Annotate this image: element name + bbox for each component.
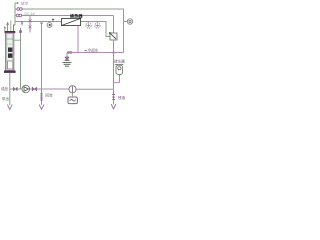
tick on line C bbox=[21, 22, 23, 26]
tick T on line C at x41.5 bbox=[40, 22, 43, 26]
check valve CV1 bbox=[32, 87, 37, 91]
wire to junction bbox=[37, 88, 41, 90]
feed arrow small green bbox=[4, 28, 6, 31]
pump P1 bbox=[22, 85, 30, 93]
wire line B bbox=[15, 15, 114, 17]
wire purple drop from E1 bbox=[77, 26, 79, 53]
wire line B riser bbox=[113, 16, 115, 34]
column V1 top flange bbox=[5, 31, 16, 33]
motor box bbox=[72, 93, 74, 96]
wire drop to drain bbox=[66, 53, 68, 58]
svg-text:换热器: 换热器 bbox=[70, 12, 83, 19]
wire long vertical x41.5 bbox=[41, 22, 43, 105]
instrument circle C3 bbox=[97, 22, 99, 23]
valve tick on side line bbox=[19, 30, 22, 33]
svg-text:冷却水: 冷却水 bbox=[88, 47, 99, 52]
column bottom insert bbox=[8, 61, 13, 69]
column bottom flange bbox=[4, 71, 16, 73]
wire main vertical x113.5 bbox=[113, 40, 115, 89]
wire trap outlet bbox=[119, 74, 121, 82]
svg-text:成品: 成品 bbox=[1, 86, 8, 91]
instrument circle C2 bbox=[88, 22, 90, 23]
wire to pump bbox=[18, 88, 22, 90]
wire after pump bbox=[30, 88, 32, 90]
tick on cooling line bbox=[85, 50, 87, 52]
instrument pump M1 bbox=[69, 86, 76, 93]
outlet arrow right bbox=[111, 104, 116, 109]
svg-text:回流: 回流 bbox=[45, 93, 53, 98]
valve dashes right bbox=[112, 95, 115, 100]
feed line green bbox=[10, 21, 12, 32]
valve V1 on line A2 bbox=[17, 8, 20, 11]
feed arrow purple bbox=[7, 25, 9, 32]
instrument circle C1 bbox=[49, 22, 51, 23]
valve chain at x30 bbox=[29, 16, 32, 33]
wire side line x20.5 bbox=[20, 28, 22, 89]
column inner line 1 bbox=[6, 38, 13, 40]
svg-text:DC-1#: DC-1# bbox=[25, 12, 35, 16]
arrow vent bbox=[17, 2, 19, 4]
wire bottom right bbox=[76, 88, 113, 90]
outlet arrow mid bbox=[39, 104, 44, 109]
drain funnel D1 bbox=[65, 57, 69, 60]
wire purple riser right bbox=[122, 9, 124, 53]
wire purple reflux bbox=[42, 88, 69, 90]
outlet arrow left bbox=[7, 105, 12, 110]
heat exchanger E1 bbox=[62, 19, 81, 26]
wire line C bbox=[15, 22, 110, 37]
valve V3 bottom bbox=[13, 87, 17, 91]
svg-text:残液: 残液 bbox=[118, 95, 126, 100]
column packing blocks bbox=[8, 48, 12, 52]
svg-text:采出: 采出 bbox=[2, 96, 9, 101]
valve dashes on x41.5 bbox=[40, 94, 43, 100]
wire vessel feed bend bbox=[14, 25, 16, 31]
wire bottom vertical right bbox=[113, 89, 115, 104]
regulator PV1 bbox=[110, 33, 117, 40]
wire purple cooling header bbox=[67, 52, 124, 54]
wire header vertical bbox=[14, 3, 16, 25]
svg-text:疏水器: 疏水器 bbox=[114, 59, 125, 64]
column inner line 2 bbox=[6, 43, 13, 45]
tick T on line C at x53 bbox=[52, 19, 55, 22]
valve V2 on line B bbox=[16, 14, 19, 17]
wire line A2 bbox=[15, 8, 122, 10]
svg-text:放空: 放空 bbox=[21, 0, 29, 5]
wire trap jog purple bbox=[114, 82, 120, 84]
wire column bottom stem bbox=[9, 73, 11, 105]
wire vent line A bbox=[15, 2, 17, 4]
column body bbox=[6, 33, 14, 70]
instrument circle C4 top right bbox=[124, 21, 128, 23]
wire bottom header left bbox=[10, 88, 13, 90]
junction tick bbox=[112, 52, 115, 54]
column side nozzle bbox=[14, 39, 21, 41]
steam trap T1 bbox=[115, 64, 124, 66]
